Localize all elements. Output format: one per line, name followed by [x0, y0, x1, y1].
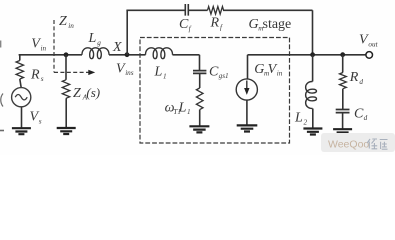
wire output row [248, 54, 366, 56]
svg-text:1: 1 [163, 72, 167, 80]
resistor Rd [340, 73, 347, 89]
svg-text:f: f [189, 25, 192, 33]
svg-text:WeeQoo: WeeQoo [328, 139, 369, 151]
svg-text:C: C [179, 17, 189, 32]
wire main input horizontal [19, 54, 200, 56]
inductor L1 [145, 48, 172, 59]
resistor Rs [16, 61, 23, 79]
svg-text:2: 2 [304, 118, 308, 126]
wire Cd to ground [342, 113, 344, 130]
inductor L2 [306, 81, 317, 108]
current source arrow [246, 81, 248, 91]
wire Gm source to ground [246, 100, 248, 125]
source Vs circle [12, 88, 31, 107]
fragment left edge arc [1, 94, 3, 107]
svg-text:out: out [368, 40, 378, 48]
svg-text:g: g [97, 39, 101, 47]
svg-text:(s): (s) [86, 85, 100, 100]
source Vs sine [15, 95, 27, 100]
fragment left edge tick [0, 41, 2, 48]
wire Rd branch down [342, 55, 344, 73]
wire feedback top rail [126, 10, 312, 55]
svg-text:in: in [277, 70, 283, 78]
node X junction [125, 52, 130, 57]
current source GmVin circle [236, 79, 257, 100]
wire Gm source top [247, 55, 249, 79]
wire X up to feedback rail [126, 10, 128, 55]
capacitor Cf [185, 4, 188, 16]
svg-text:L: L [294, 111, 303, 126]
node L2 junction [310, 52, 315, 57]
capacitor Cgs1 [193, 71, 206, 74]
resistor wT1L1 [196, 88, 203, 110]
svg-text:G: G [254, 62, 264, 77]
svg-text:s: s [41, 75, 44, 83]
svg-text:gs1: gs1 [219, 72, 229, 80]
svg-text:in: in [68, 22, 74, 30]
svg-text:L: L [154, 65, 163, 80]
fragment left edge dash [0, 130, 4, 132]
svg-text:Z: Z [73, 86, 81, 101]
watermark CJK weiku [367, 139, 387, 149]
ground under Cd [333, 129, 352, 135]
svg-text:in: in [41, 44, 47, 52]
svg-text:C: C [209, 64, 219, 79]
dashed Zin probe line with arrow [54, 20, 89, 72]
svg-text:R: R [349, 70, 359, 85]
svg-text:s: s [39, 117, 42, 125]
svg-text:X: X [112, 40, 122, 55]
wire source to ground [21, 107, 23, 128]
svg-text:f: f [220, 23, 223, 31]
svg-text:d: d [364, 114, 368, 122]
svg-text:G: G [249, 17, 259, 32]
dashed box transistor model [140, 38, 290, 144]
svg-text:stage: stage [263, 17, 292, 32]
ground under wT1L1 [189, 126, 209, 132]
terminal Vout [366, 52, 373, 59]
wire ZA branch down [65, 55, 67, 80]
watermark backdrop [321, 133, 395, 152]
svg-text:Z: Z [59, 14, 67, 29]
Zin arrowhead [88, 70, 95, 75]
svg-text:R: R [210, 16, 220, 31]
svg-text:1: 1 [187, 108, 191, 116]
ground under Vs [12, 128, 31, 134]
capacitor Cd [336, 110, 350, 113]
ground under GmVin [237, 125, 258, 131]
wire L2 to ground [312, 109, 314, 129]
wire wT1L1 to ground [199, 110, 201, 127]
wire L2 branch down [312, 55, 314, 82]
wire ZA to ground [65, 98, 67, 128]
wire down to Cgs1 [199, 55, 201, 71]
ground under L2 [303, 129, 322, 135]
impedance ZA(s) [62, 80, 69, 98]
ground under ZA [57, 128, 76, 134]
svg-text:L: L [178, 101, 187, 116]
node Vin junction [64, 52, 69, 57]
wire Cgs1 to wT1L1 [199, 73, 201, 88]
resistor Rf [208, 7, 224, 15]
svg-text:C: C [354, 106, 364, 121]
svg-text:R: R [30, 67, 40, 82]
svg-text:d: d [359, 78, 363, 86]
svg-text:L: L [88, 31, 97, 46]
node Rd junction [340, 52, 345, 57]
svg-text:ins: ins [125, 69, 134, 77]
wire source branch down [19, 55, 21, 61]
inductor Lg [82, 48, 109, 59]
wire Rd to Cd [342, 89, 344, 110]
wire Rs to source [20, 79, 21, 88]
